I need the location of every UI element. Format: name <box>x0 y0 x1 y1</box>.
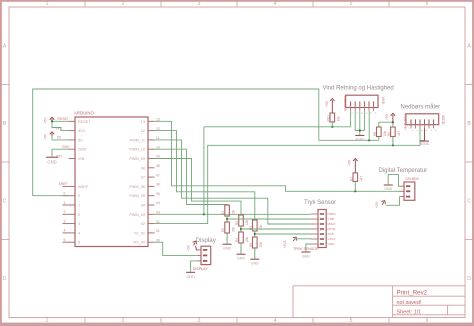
svg-text:GND: GND <box>328 242 336 246</box>
svg-text:C: C <box>3 199 7 205</box>
ground symbol (div3) <box>250 259 259 265</box>
junction (R7 on temp data line) <box>354 190 356 192</box>
wire pin00 to display pin2 <box>155 242 198 255</box>
connector X1 wind sensor RJ11 <box>323 86 394 113</box>
wire rain pins 3,4 to AGND <box>420 129 425 141</box>
svg-text:DISPLAY: DISPLAY <box>193 267 209 271</box>
svg-text:+5V: +5V <box>44 117 48 124</box>
ground symbol (div1) <box>223 244 232 250</box>
svg-text:2: 2 <box>78 213 80 217</box>
wire divider3 tap to pressure SCK <box>255 233 311 235</box>
svg-text:20k: 20k <box>231 226 235 232</box>
svg-text:PWM_11: PWM_11 <box>130 138 145 142</box>
svg-text:0: 0 <box>78 194 80 198</box>
svg-text:6: 6 <box>426 318 429 324</box>
svg-text:Vind Retning og Hastighed: Vind Retning og Hastighed <box>323 86 394 92</box>
svg-text:4: 4 <box>274 318 277 324</box>
svg-text:MISO: MISO <box>328 222 337 226</box>
svg-text:06: 06 <box>156 183 160 187</box>
svg-text:3: 3 <box>198 1 201 7</box>
svg-text:1: 1 <box>64 201 66 205</box>
svg-text:PWM_10: PWM_10 <box>129 148 145 152</box>
svg-text:2: 2 <box>64 210 66 214</box>
svg-text:AREF: AREF <box>59 182 68 186</box>
svg-text:VIN: VIN <box>78 157 85 161</box>
pressure sensor U3 <box>293 200 336 251</box>
supply +5V arrow (R7) <box>347 159 357 173</box>
svg-text:R3: R3 <box>235 221 239 225</box>
svg-text:AGND: AGND <box>355 138 365 142</box>
svg-text:RJ11-6PIN: RJ11-6PIN <box>403 115 407 131</box>
title block <box>293 286 465 318</box>
svg-text:R9: R9 <box>387 132 391 136</box>
svg-text:+5V: +5V <box>347 159 351 166</box>
svg-text:2: 2 <box>122 1 125 7</box>
svg-text:07: 07 <box>141 176 145 180</box>
svg-text:4: 4 <box>64 229 66 233</box>
supply +5V arrow P1 (to RESET/3V3) <box>44 117 55 124</box>
resistor R4 (lower divider) <box>235 232 249 254</box>
svg-text:ARDUINO: ARDUINO <box>74 111 94 116</box>
wind connector pins <box>351 101 378 114</box>
wire net D0 loop (pin 0 to top bus, down to R8/wind) <box>33 89 379 196</box>
wire R8 bottom lead <box>378 137 380 141</box>
svg-text:D: D <box>467 276 471 282</box>
ground symbol GND (display) <box>186 272 195 279</box>
supply +5V arrow (display) <box>186 240 197 251</box>
resistor R1 (upper divider) <box>221 205 235 222</box>
wire divider2 tap to pressure MOSI <box>241 228 311 230</box>
svg-text:R6: R6 <box>249 243 253 247</box>
ground symbol (div2) <box>237 254 246 260</box>
temperature sensor U2 DS18B20 <box>379 168 428 200</box>
ground symbol GND (temp) <box>384 185 393 191</box>
ground symbol (arduino) <box>46 157 58 164</box>
resistor R9 <box>387 127 401 145</box>
svg-text:3: 3 <box>198 318 201 324</box>
wire +3V3 to pressure pin6 <box>294 239 311 240</box>
svg-text:20k: 20k <box>259 241 263 247</box>
svg-text:R2: R2 <box>221 228 225 232</box>
svg-text:RX_00: RX_00 <box>133 241 145 245</box>
svg-text:Print_Rev2: Print_Rev2 <box>397 290 428 297</box>
svg-text:1: 1 <box>46 1 49 7</box>
svg-text:+5V: +5V <box>325 100 329 107</box>
svg-text:R8: R8 <box>373 132 377 136</box>
svg-text:CSB: CSB <box>328 217 334 221</box>
svg-text:GND: GND <box>251 261 259 265</box>
svg-text:DS18B20: DS18B20 <box>406 177 420 181</box>
resistor R5 (upper divider) <box>249 220 263 237</box>
ground symbol GND (pressure) <box>301 252 310 258</box>
svg-text:3: 3 <box>78 222 80 226</box>
svg-text:07: 07 <box>156 173 160 177</box>
pressure sensor pins <box>311 212 336 246</box>
svg-text:5: 5 <box>350 318 353 324</box>
supply +5V arrow P2 (to 5V pin) <box>44 132 55 140</box>
wire R10 line to wind pin1 <box>204 126 351 128</box>
svg-text:Nedbørs måler: Nedbørs måler <box>401 104 441 111</box>
svg-text:02: 02 <box>141 222 145 226</box>
connector X2 rain sensor RJ11 <box>401 104 446 131</box>
svg-text:20k: 20k <box>245 236 249 242</box>
wire display pin3 to ground <box>191 261 198 272</box>
supply +5V arrow (temp pin3) <box>375 199 387 208</box>
wire pin02 to AGND bus (rain sensor) <box>155 141 421 224</box>
svg-text:NEDB.: NEDB. <box>441 115 445 125</box>
svg-text:+3V3: +3V3 <box>283 240 287 248</box>
wire pin13 to temp sensor DQ <box>155 121 400 191</box>
svg-text:GND: GND <box>237 256 245 260</box>
svg-text:Digital Temperatur: Digital Temperatur <box>379 168 428 174</box>
svg-text:D: D <box>3 276 7 282</box>
svg-text:RESET: RESET <box>58 117 69 121</box>
rain connector pins <box>411 119 438 131</box>
svg-text:not saved!: not saved! <box>397 300 422 306</box>
svg-text:C: C <box>467 199 471 205</box>
wire pressure GND pin to ground <box>306 244 311 251</box>
svg-text:+5V: +5V <box>385 113 389 120</box>
svg-text:GND: GND <box>62 145 70 149</box>
svg-text:AREF: AREF <box>78 185 89 189</box>
supply +5V arrow (R10) <box>325 99 335 114</box>
svg-text:AGND: AGND <box>420 142 430 146</box>
svg-text:4: 4 <box>274 1 277 7</box>
wire temp pin3 to +5V <box>386 197 400 206</box>
svg-text:DRDY: DRDY <box>328 212 337 216</box>
svg-text:GND: GND <box>47 160 56 165</box>
svg-text:+5V: +5V <box>44 133 48 140</box>
svg-text:PWM_05: PWM_05 <box>129 194 145 198</box>
resistor R6 (lower divider) <box>249 237 263 259</box>
arduino left pin labels <box>56 117 71 242</box>
junction (divider tap div2) <box>240 228 242 230</box>
wire R8 top to R9 top <box>379 121 394 127</box>
svg-text:GND: GND <box>384 187 392 191</box>
display module U4 <box>193 237 217 271</box>
svg-text:5V: 5V <box>57 136 62 140</box>
wire pin12 to divider R5 top <box>155 131 255 220</box>
svg-text:1: 1 <box>46 318 49 324</box>
svg-text:4: 4 <box>78 231 80 235</box>
svg-text:08: 08 <box>141 166 145 170</box>
wire RESET net <box>51 120 69 130</box>
svg-text:12: 12 <box>141 129 145 133</box>
svg-text:3V3: 3V3 <box>78 129 85 133</box>
wire wind pins 2,3,4 to AGND <box>355 111 364 135</box>
wire wind pin5 drop <box>368 111 370 140</box>
svg-text:R10: R10 <box>326 115 330 121</box>
svg-text:VIND: VIND <box>381 97 385 105</box>
ground symbol AGND (wind) <box>355 135 365 141</box>
svg-text:4k7: 4k7 <box>360 176 364 181</box>
junction (R9 bottom on AGND bus) <box>392 144 394 146</box>
wire divider1 tap to pressure CSB <box>227 218 311 220</box>
svg-text:R1: R1 <box>221 211 225 215</box>
svg-text:RESET: RESET <box>78 120 91 124</box>
wire anemometer drop (R10 line to pin03 wire) <box>203 127 205 215</box>
svg-text:1: 1 <box>78 204 80 208</box>
svg-text:R4: R4 <box>235 238 239 242</box>
svg-text:5: 5 <box>350 1 353 7</box>
svg-text:Sheet: 1/1: Sheet: 1/1 <box>397 309 422 315</box>
svg-text:4k7: 4k7 <box>397 131 401 136</box>
svg-text:3: 3 <box>64 219 66 223</box>
resistor R7 <box>349 173 363 191</box>
svg-text:GND: GND <box>302 254 310 258</box>
resistor R8 <box>373 122 387 136</box>
svg-text:5: 5 <box>78 241 80 245</box>
junction (anemometer net on pin03 wire) <box>203 213 205 215</box>
ground symbol AGND (rain) <box>420 141 430 146</box>
svg-text:5V: 5V <box>78 138 83 142</box>
svg-text:10k: 10k <box>337 116 341 122</box>
junction (wind pin5 on bus) <box>368 139 370 141</box>
svg-text:GND: GND <box>223 246 231 250</box>
svg-text:2: 2 <box>122 318 125 324</box>
wire wind pin1 drop <box>350 111 352 127</box>
svg-text:R7: R7 <box>349 177 353 181</box>
svg-text:13: 13 <box>141 120 145 124</box>
svg-text:04: 04 <box>156 201 160 205</box>
supply +5V arrow (R9) <box>385 113 395 122</box>
svg-text:Display: Display <box>196 237 217 244</box>
resistor R2 (lower divider) <box>221 222 235 244</box>
wire temp pin1 to GND <box>388 175 399 187</box>
svg-text:10k: 10k <box>245 219 249 225</box>
svg-text:TX_01: TX_01 <box>134 231 145 235</box>
microcontroller U1 ARDUINO <box>63 111 155 247</box>
junction (divider tap div1) <box>226 218 228 220</box>
wire pin03 to pressure sensor DRDY <box>155 213 312 215</box>
svg-text:PWM_06: PWM_06 <box>129 185 145 189</box>
svg-text:+5V: +5V <box>375 201 379 208</box>
svg-text:04: 04 <box>141 204 145 208</box>
svg-text:6: 6 <box>426 1 429 7</box>
supply +3V3 arrow (pressure) <box>283 236 298 249</box>
wire GND net <box>52 149 69 156</box>
wire pin09 to divider R3 top <box>155 159 242 216</box>
resistor R3 (upper divider) <box>235 215 249 232</box>
svg-text:MOSI: MOSI <box>328 227 336 231</box>
svg-text:+5V: +5V <box>186 244 190 251</box>
wire +5V to display pin1 <box>196 246 198 250</box>
wire pin10 to divider R1 top <box>155 149 228 205</box>
svg-text:5: 5 <box>64 238 66 242</box>
svg-text:PWM_09: PWM_09 <box>129 157 145 161</box>
arduino right pin number labels <box>156 118 160 243</box>
svg-text:SCK: SCK <box>328 232 335 236</box>
junction (divider tap div3) <box>254 233 256 235</box>
svg-text:0: 0 <box>64 192 66 196</box>
svg-text:GND: GND <box>187 275 195 279</box>
wire pin11 to pressure sensor MISO <box>155 140 312 224</box>
svg-text:10k: 10k <box>231 209 235 215</box>
svg-text:Tryk Sensor: Tryk Sensor <box>304 200 336 206</box>
svg-text:PWM_03: PWM_03 <box>129 213 145 217</box>
svg-text:+3V3: +3V3 <box>328 237 336 241</box>
resistor R10 <box>326 113 340 127</box>
svg-text:08: 08 <box>156 164 160 168</box>
svg-text:GND: GND <box>78 148 87 152</box>
junction (R10 bottom) <box>331 126 333 128</box>
svg-text:05: 05 <box>156 192 160 196</box>
wire 5V net <box>52 137 69 140</box>
svg-text:RJ11-6PIN: RJ11-6PIN <box>343 96 347 112</box>
svg-text:01: 01 <box>156 229 160 233</box>
